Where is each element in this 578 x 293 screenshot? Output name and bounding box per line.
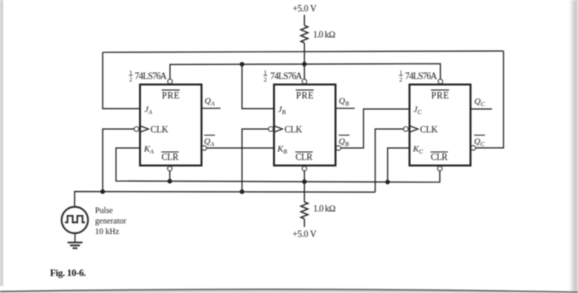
svg-text:74LS76A: 74LS76A	[405, 71, 437, 81]
svg-text:CLK: CLK	[420, 125, 438, 135]
svg-text:CLK: CLK	[151, 125, 169, 135]
svg-text:PRE: PRE	[431, 90, 449, 100]
svg-text:+5.0 V: +5.0 V	[293, 229, 318, 239]
svg-text:CLR: CLR	[296, 152, 313, 162]
svg-text:PRE: PRE	[162, 90, 180, 100]
svg-text:1.0 kΩ: 1.0 kΩ	[313, 204, 336, 214]
svg-text:2: 2	[129, 77, 132, 83]
svg-text:CLK: CLK	[285, 125, 303, 135]
svg-text:Fig. 10-6.: Fig. 10-6.	[50, 268, 87, 279]
svg-text:74LS76A: 74LS76A	[135, 71, 167, 81]
svg-text:generator: generator	[95, 217, 127, 226]
svg-text:PRE: PRE	[296, 90, 314, 100]
svg-text:2: 2	[264, 77, 267, 83]
svg-text:10 kHz: 10 kHz	[95, 227, 120, 236]
svg-text:CLR: CLR	[431, 152, 448, 162]
svg-text:+5.0 V: +5.0 V	[293, 4, 318, 14]
svg-text:74LS76A: 74LS76A	[270, 71, 302, 81]
svg-text:CLR: CLR	[162, 152, 179, 162]
svg-text:2: 2	[399, 77, 402, 83]
svg-text:Pulse: Pulse	[95, 206, 113, 215]
svg-text:1.0 kΩ: 1.0 kΩ	[313, 29, 336, 39]
